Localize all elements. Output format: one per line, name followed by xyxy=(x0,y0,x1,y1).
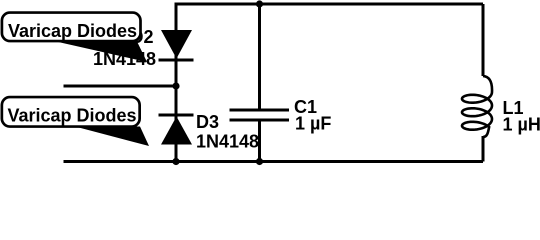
svg-text:Varicap Diodes: Varicap Diodes xyxy=(8,105,137,125)
svg-text:D3: D3 xyxy=(196,112,219,132)
svg-text:1 µH: 1 µH xyxy=(503,114,540,134)
svg-text:Varicap Diodes: Varicap Diodes xyxy=(8,21,137,41)
svg-text:1 µF: 1 µF xyxy=(295,114,331,134)
svg-text:1N4148: 1N4148 xyxy=(196,132,259,152)
